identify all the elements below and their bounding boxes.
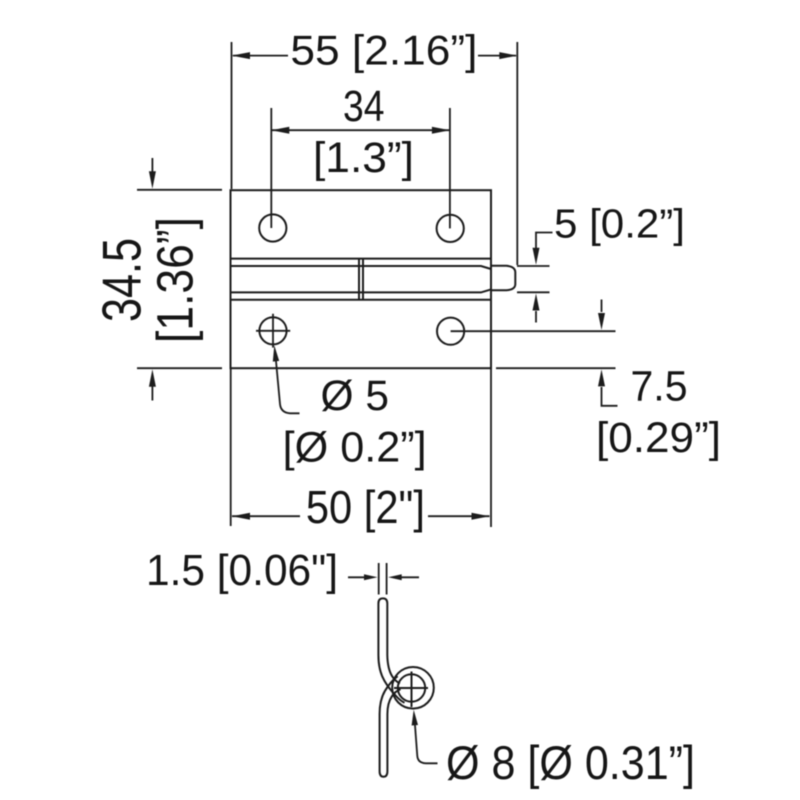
dimension line 1.5 left segment — [348, 576, 365, 578]
extension line 50 left — [230, 368, 232, 526]
arrowhead 50 left — [232, 513, 250, 520]
svg-text:34: 34 — [343, 82, 385, 131]
svg-text:[1.3”]: [1.3”] — [313, 134, 414, 182]
hole top-left — [259, 214, 286, 241]
extension line 7.5 bottom — [496, 367, 616, 369]
side view lower strip with rounded bottom — [380, 676, 401, 777]
arrow tail 7.5 top — [601, 300, 603, 313]
hole top-right — [437, 215, 464, 242]
arrowhead 55 left — [232, 52, 251, 59]
dimension line 1.5 right segment — [400, 576, 419, 578]
leader line diameter 5 — [276, 360, 300, 413]
arrowhead 55 right — [499, 52, 517, 59]
arrow tail 34.5 top — [151, 158, 153, 172]
side view upper strip with rounded top — [378, 598, 404, 702]
svg-text:1.5 [0.06"]: 1.5 [0.06"] — [146, 546, 338, 595]
leader line diameter 8 — [415, 724, 438, 763]
crosshair on bottom-left hole — [256, 314, 290, 348]
extension line 5 bottom — [517, 291, 550, 293]
arrowhead 34.5 bottom — [149, 369, 156, 387]
side view rolled knuckle outer circle — [392, 667, 434, 709]
extension line 1.5 right — [386, 563, 388, 595]
svg-text:Ø 5: Ø 5 — [321, 372, 390, 420]
knuckle band outer top line — [231, 258, 492, 260]
hole bottom-left — [259, 317, 286, 344]
pin tip protruding right — [491, 266, 515, 291]
knuckle divider line right — [362, 259, 364, 300]
arrowhead 1.5 left — [364, 574, 378, 580]
dimension line 50 left segment — [232, 515, 300, 517]
arrow tail 34.5 bottom — [151, 386, 153, 401]
dimension line 50 right segment — [428, 515, 490, 517]
arrowhead 34.5 top — [149, 171, 156, 189]
svg-text:55 [2.16”]: 55 [2.16”] — [290, 26, 477, 73]
arrowhead 5 top — [533, 248, 540, 265]
svg-text:7.5: 7.5 — [631, 362, 688, 410]
arrow tail and foot 7.5 bottom — [602, 387, 618, 406]
knuckle band outer bottom line — [231, 299, 492, 301]
extension line 55 left — [231, 42, 233, 189]
svg-text:Ø 8 [Ø 0.31”]: Ø 8 [Ø 0.31”] — [446, 736, 695, 789]
dimension line 55 right segment — [478, 55, 516, 57]
dimension line 55 left segment — [233, 55, 288, 57]
svg-text:34.5: 34.5 — [91, 238, 152, 322]
extension line 50 right — [490, 368, 492, 527]
svg-text:[1.36”]: [1.36”] — [146, 217, 203, 343]
dimension line 34 — [271, 129, 450, 131]
knuckle divider line left — [358, 259, 360, 300]
arrowhead 34 left — [271, 127, 289, 134]
arrowhead leader diameter 5 — [273, 345, 279, 361]
extension line 1.5 left — [378, 563, 380, 595]
arrowhead 34 right — [432, 127, 450, 134]
arrow tail 5 bottom — [535, 311, 537, 323]
crosshair on pin circle — [394, 672, 428, 708]
svg-text:[Ø 0.2”]: [Ø 0.2”] — [283, 424, 427, 472]
extension line 34 left — [270, 108, 272, 228]
extension line 5 top — [517, 265, 550, 267]
extension line 34.5 top — [137, 189, 222, 191]
svg-text:50 [2"]: 50 [2"] — [306, 481, 425, 533]
svg-text:[0.29”]: [0.29”] — [596, 414, 721, 462]
pin bottom line with right chamfer — [231, 289, 492, 292]
hole bottom-right — [437, 318, 464, 345]
extension line 34 right — [449, 108, 451, 228]
arrowhead leader diameter 8 — [412, 710, 418, 726]
extension line 34.5 bottom — [137, 367, 222, 369]
arrowhead 7.5 top — [598, 313, 605, 330]
arrowhead 50 right — [472, 513, 490, 520]
arrowhead 1.5 right — [388, 574, 402, 580]
leader elbow for dim 5 — [536, 233, 553, 250]
svg-text:5 [0.2”]: 5 [0.2”] — [554, 201, 685, 247]
pin top line with right chamfer — [231, 266, 492, 269]
arrowhead 5 bottom — [533, 294, 540, 311]
hinge plate outline (front view) — [231, 190, 492, 368]
side view pin circle — [398, 674, 425, 701]
extension line 55 right — [516, 42, 518, 265]
leader line from bottom-right hole (7.5 dim) — [451, 330, 616, 332]
arrowhead 7.5 bottom — [598, 369, 605, 386]
